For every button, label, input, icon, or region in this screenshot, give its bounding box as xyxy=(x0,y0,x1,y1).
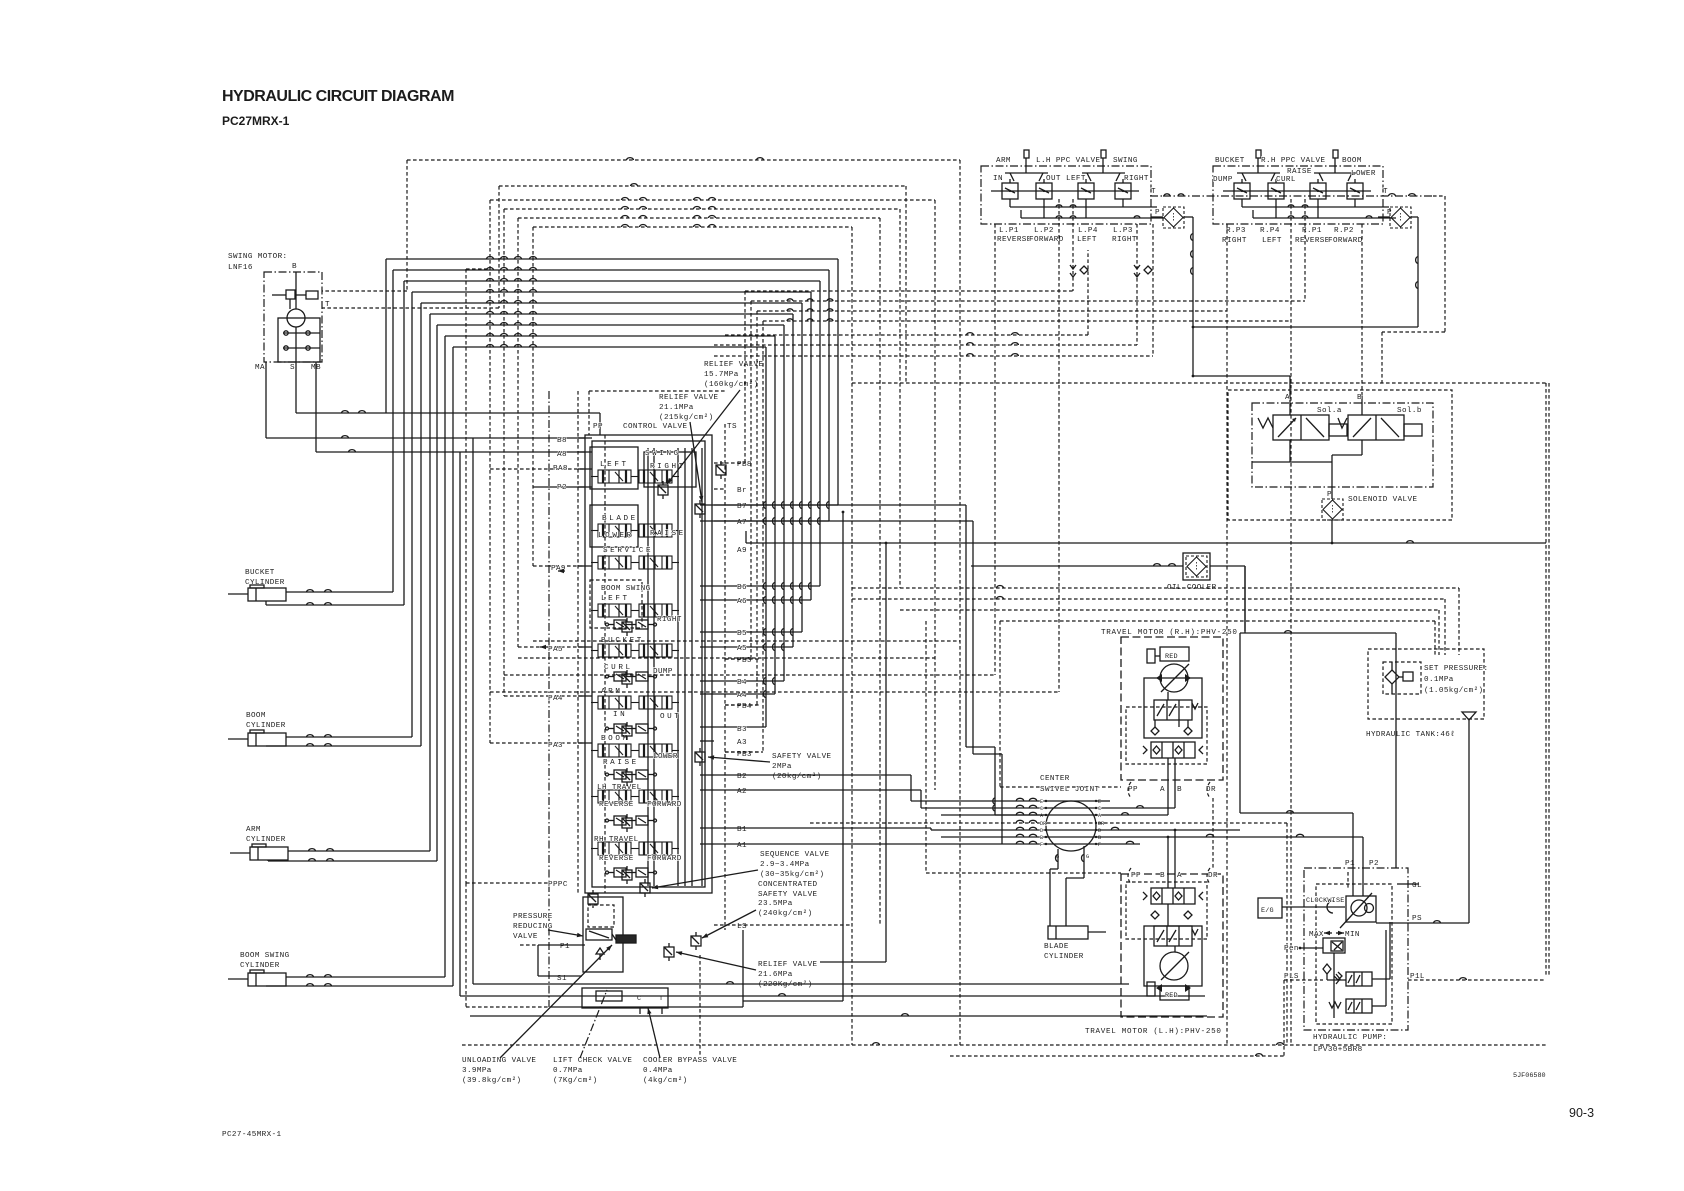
svg-text:RAISE: RAISE xyxy=(1287,168,1312,176)
svg-text:CYLINDER: CYLINDER xyxy=(245,579,285,587)
svg-text:RAISE: RAISE xyxy=(650,530,686,538)
svg-text:SWING: SWING xyxy=(1113,157,1138,165)
svg-text:PPPC: PPPC xyxy=(548,881,568,889)
svg-text:D: D xyxy=(1040,828,1043,834)
svg-text:0.4MPa: 0.4MPa xyxy=(643,1067,673,1075)
svg-text:LOWER: LOWER xyxy=(598,532,634,540)
svg-text:L.P2: L.P2 xyxy=(1034,227,1054,235)
svg-text:LIFT CHECK VALVE: LIFT CHECK VALVE xyxy=(553,1057,632,1065)
svg-text:SOLENOID VALVE: SOLENOID VALVE xyxy=(1348,496,1417,504)
svg-text:RIGHT: RIGHT xyxy=(1112,236,1137,244)
svg-text:(20kg/cm²): (20kg/cm²) xyxy=(772,772,822,781)
svg-text:P2: P2 xyxy=(557,484,567,492)
svg-text:SET PRESSURE:: SET PRESSURE: xyxy=(1424,665,1488,673)
svg-text:PRESSURE: PRESSURE xyxy=(513,913,553,921)
svg-text:FORWARD: FORWARD xyxy=(647,801,682,809)
svg-text:B: B xyxy=(1177,786,1182,794)
svg-text:E: E xyxy=(1098,799,1101,805)
svg-text:(4kg/cm²): (4kg/cm²) xyxy=(643,1076,688,1085)
svg-text:DR: DR xyxy=(1098,821,1104,827)
svg-text:IN: IN xyxy=(613,711,627,719)
svg-text:L.P1: L.P1 xyxy=(999,227,1019,235)
svg-text:R.P2: R.P2 xyxy=(1334,227,1354,235)
svg-text:LPV30+5BR8: LPV30+5BR8 xyxy=(1313,1046,1363,1054)
svg-text:2MPa: 2MPa xyxy=(772,763,792,771)
svg-text:CYLINDER: CYLINDER xyxy=(246,836,286,844)
svg-text:SWING MOTOR:: SWING MOTOR: xyxy=(228,253,287,261)
svg-text:S: S xyxy=(290,364,295,372)
svg-text:C: C xyxy=(1098,806,1101,812)
svg-text:B: B xyxy=(1357,394,1362,402)
svg-text:(240kg/cm²): (240kg/cm²) xyxy=(758,909,813,918)
svg-text:P: P xyxy=(1327,491,1332,499)
svg-text:RELIEF VALVE: RELIEF VALVE xyxy=(704,361,764,369)
svg-text:B: B xyxy=(292,263,297,271)
svg-text:MA: MA xyxy=(255,364,265,372)
svg-text:PP: PP xyxy=(593,423,603,431)
svg-text:R.P3: R.P3 xyxy=(1226,227,1246,235)
svg-text:C: C xyxy=(1040,806,1043,812)
svg-text:A9: A9 xyxy=(737,547,747,555)
svg-text:D: D xyxy=(1098,828,1101,834)
svg-text:PP: PP xyxy=(1131,872,1141,880)
svg-text:L.P3: L.P3 xyxy=(1113,227,1133,235)
svg-text:CURL: CURL xyxy=(1276,176,1296,184)
svg-text:PS: PS xyxy=(1412,915,1422,923)
svg-text:A6: A6 xyxy=(737,598,747,606)
svg-text:CYLINDER: CYLINDER xyxy=(246,722,286,730)
svg-text:CURL: CURL xyxy=(604,664,633,672)
svg-text:BLADE: BLADE xyxy=(602,515,638,523)
svg-text:B: B xyxy=(1040,835,1043,841)
svg-text:CENTER: CENTER xyxy=(1040,775,1070,783)
svg-text:B8: B8 xyxy=(557,437,567,445)
svg-text:A: A xyxy=(1177,872,1182,880)
svg-text:P1: P1 xyxy=(560,943,570,951)
svg-text:REVERSE: REVERSE xyxy=(997,236,1032,244)
svg-text:B5: B5 xyxy=(737,630,747,638)
svg-text:B: B xyxy=(1160,872,1165,880)
svg-text:A2: A2 xyxy=(737,788,747,796)
svg-text:OUT: OUT xyxy=(660,713,681,721)
svg-text:BOOM: BOOM xyxy=(1342,157,1362,165)
svg-text:BOOM SWING: BOOM SWING xyxy=(601,585,651,593)
svg-text:RELIEF VALVE: RELIEF VALVE xyxy=(659,394,719,402)
svg-text:SAFETY VALVE: SAFETY VALVE xyxy=(758,891,818,899)
svg-text:F: F xyxy=(1040,842,1043,848)
svg-text:SWIVEL JOINT: SWIVEL JOINT xyxy=(1040,786,1100,794)
svg-text:DR: DR xyxy=(1040,821,1046,827)
svg-text:SEQUENCE VALVE: SEQUENCE VALVE xyxy=(760,851,829,859)
svg-text:FORWARD: FORWARD xyxy=(647,855,682,863)
svg-text:RIGHT: RIGHT xyxy=(1222,237,1247,245)
svg-text:RED: RED xyxy=(1165,653,1178,661)
svg-text:(215kg/cm²): (215kg/cm²) xyxy=(659,413,714,422)
svg-text:T: T xyxy=(1151,188,1156,196)
svg-text:A3: A3 xyxy=(737,739,747,747)
svg-text:LNF16: LNF16 xyxy=(228,264,253,272)
svg-text:5JF06580: 5JF06580 xyxy=(1513,1072,1546,1080)
svg-text:TS: TS xyxy=(727,423,737,431)
svg-text:Pen: Pen xyxy=(1284,945,1299,953)
svg-text:BUCKET: BUCKET xyxy=(245,569,275,577)
svg-text:BOOM: BOOM xyxy=(246,712,266,720)
svg-text:LOWER: LOWER xyxy=(653,753,678,761)
svg-text:LEFT: LEFT xyxy=(1262,237,1282,245)
svg-text:OUT: OUT xyxy=(1046,175,1061,183)
svg-text:REVERSE: REVERSE xyxy=(1295,237,1330,245)
svg-text:BUCKET: BUCKET xyxy=(1215,157,1245,165)
svg-text:L.P4: L.P4 xyxy=(1078,227,1098,235)
svg-text:A1: A1 xyxy=(737,842,747,850)
svg-text:P2: P2 xyxy=(1369,860,1379,868)
svg-text:CONTROL VALVE: CONTROL VALVE xyxy=(623,423,687,431)
svg-text:HYDRAULIC TANK:46ℓ: HYDRAULIC TANK:46ℓ xyxy=(1366,730,1455,739)
svg-text:Sol.b: Sol.b xyxy=(1397,407,1422,415)
svg-text:A: A xyxy=(1160,786,1165,794)
svg-text:Br: Br xyxy=(737,487,747,495)
svg-text:DUMP: DUMP xyxy=(1213,176,1233,184)
svg-text:ARM: ARM xyxy=(246,826,261,834)
svg-text:R.H PPC VALVE: R.H PPC VALVE xyxy=(1261,157,1325,165)
svg-text:G: G xyxy=(1086,854,1089,860)
svg-text:21.6MPa: 21.6MPa xyxy=(758,971,793,979)
svg-text:B6: B6 xyxy=(737,584,747,592)
svg-text:PB4: PB4 xyxy=(737,703,752,711)
svg-text:B: B xyxy=(1098,835,1101,841)
svg-text:LS: LS xyxy=(737,923,747,931)
svg-text:PA3: PA3 xyxy=(548,742,563,750)
svg-text:FORWARD: FORWARD xyxy=(1328,237,1363,245)
svg-text:F: F xyxy=(1098,842,1101,848)
svg-text:Sol.a: Sol.a xyxy=(1317,407,1342,415)
svg-text:LEFT: LEFT xyxy=(1077,236,1097,244)
svg-text:ARM: ARM xyxy=(996,157,1011,165)
svg-text:PA8: PA8 xyxy=(553,465,568,473)
svg-text:PA4: PA4 xyxy=(548,695,563,703)
svg-text:IN: IN xyxy=(993,175,1003,183)
svg-text:GL: GL xyxy=(1412,882,1422,890)
svg-text:A8: A8 xyxy=(557,451,567,459)
svg-text:A7: A7 xyxy=(737,519,747,527)
svg-text:(30~35kg/cm²): (30~35kg/cm²) xyxy=(760,870,824,879)
svg-text:A5: A5 xyxy=(737,645,747,653)
svg-text:(39.8kg/cm²): (39.8kg/cm²) xyxy=(462,1076,521,1085)
svg-text:E: E xyxy=(1040,799,1043,805)
svg-text:PC27MRX-1: PC27MRX-1 xyxy=(222,114,290,128)
svg-text:DR: DR xyxy=(1208,872,1218,880)
svg-text:LEFT: LEFT xyxy=(601,595,630,603)
svg-text:SERVICE: SERVICE xyxy=(603,547,653,555)
svg-text:BLADE: BLADE xyxy=(1044,943,1069,951)
svg-text:RELIEF VALVE: RELIEF VALVE xyxy=(758,961,818,969)
svg-text:RIGHT: RIGHT xyxy=(1124,175,1149,183)
svg-text:RED: RED xyxy=(1165,992,1178,1000)
svg-text:SAFETY VALVE: SAFETY VALVE xyxy=(772,753,832,761)
svg-text:REVERSE: REVERSE xyxy=(599,855,634,863)
svg-text:SWING: SWING xyxy=(645,450,681,458)
svg-text:P: P xyxy=(1155,209,1160,217)
svg-text:TRAVEL MOTOR (R.H):PHV-250: TRAVEL MOTOR (R.H):PHV-250 xyxy=(1101,629,1238,637)
svg-text:REVERSE: REVERSE xyxy=(599,801,634,809)
svg-text:HYDRAULIC PUMP:: HYDRAULIC PUMP: xyxy=(1313,1034,1387,1042)
svg-text:CONCENTRATED: CONCENTRATED xyxy=(758,881,818,889)
svg-text:2.9~3.4MPa: 2.9~3.4MPa xyxy=(760,861,810,869)
svg-text:21.1MPa: 21.1MPa xyxy=(659,404,694,412)
svg-text:0.7MPa: 0.7MPa xyxy=(553,1067,583,1075)
svg-text:B4: B4 xyxy=(737,679,747,687)
svg-text:RAISE: RAISE xyxy=(603,759,639,767)
svg-text:PA5: PA5 xyxy=(548,646,563,654)
svg-text:PC27-45MRX-1: PC27-45MRX-1 xyxy=(222,1131,282,1139)
svg-text:23.5MPa: 23.5MPa xyxy=(758,900,793,908)
svg-text:L.H PPC VALVE: L.H PPC VALVE xyxy=(1036,157,1100,165)
svg-text:TRAVEL MOTOR (L.H):PHV-250: TRAVEL MOTOR (L.H):PHV-250 xyxy=(1085,1028,1222,1036)
svg-text:3.9MPa: 3.9MPa xyxy=(462,1067,492,1075)
svg-text:VALVE: VALVE xyxy=(513,933,538,941)
svg-text:RH TRAVEL: RH TRAVEL xyxy=(594,836,639,844)
svg-text:CYLINDER: CYLINDER xyxy=(240,962,280,970)
svg-text:COOLER BYPASS VALVE: COOLER BYPASS VALVE xyxy=(643,1057,737,1065)
svg-text:E/G: E/G xyxy=(1261,907,1274,915)
svg-text:(160kg/cm²): (160kg/cm²) xyxy=(704,380,759,389)
svg-text:A4: A4 xyxy=(737,692,747,700)
svg-text:R.P4: R.P4 xyxy=(1260,227,1280,235)
svg-text:B3: B3 xyxy=(737,726,747,734)
svg-text:B2: B2 xyxy=(737,773,747,781)
svg-text:0.1MPa: 0.1MPa xyxy=(1424,676,1454,684)
svg-text:REDUCING: REDUCING xyxy=(513,923,553,931)
svg-text:90-3: 90-3 xyxy=(1569,1106,1594,1120)
svg-text:LEFT: LEFT xyxy=(1066,175,1086,183)
svg-text:A: A xyxy=(1285,394,1290,402)
svg-text:CLOCKWISE: CLOCKWISE xyxy=(1306,897,1345,905)
svg-text:PB5: PB5 xyxy=(737,657,752,665)
svg-text:LEFT: LEFT xyxy=(600,461,629,469)
svg-text:T: T xyxy=(1383,188,1388,196)
svg-text:PP: PP xyxy=(1128,786,1138,794)
svg-text:MAX: MAX xyxy=(1309,931,1324,939)
svg-text:LH TRAVEL: LH TRAVEL xyxy=(597,784,642,792)
svg-text:CYLINDER: CYLINDER xyxy=(1044,953,1084,961)
svg-text:LOWER: LOWER xyxy=(1351,170,1376,178)
svg-text:HYDRAULIC CIRCUIT DIAGRAM: HYDRAULIC CIRCUIT DIAGRAM xyxy=(222,88,454,105)
svg-text:(1.05kg/cm²): (1.05kg/cm²) xyxy=(1424,686,1483,695)
svg-text:UNLOADING VALVE: UNLOADING VALVE xyxy=(462,1057,536,1065)
svg-text:RIGHT: RIGHT xyxy=(657,616,682,624)
svg-text:B7: B7 xyxy=(737,503,747,511)
svg-text:MIN: MIN xyxy=(1345,931,1360,939)
svg-text:(7Kg/cm²): (7Kg/cm²) xyxy=(553,1076,598,1085)
svg-text:15.7MPa: 15.7MPa xyxy=(704,371,739,379)
svg-text:B1: B1 xyxy=(737,826,747,834)
svg-text:BOOM SWING: BOOM SWING xyxy=(240,952,290,960)
